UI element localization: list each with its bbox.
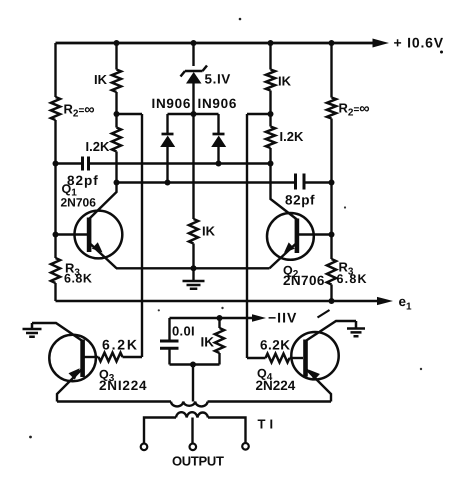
resistor R2 left: [51, 97, 60, 120]
node junction dot 10: [268, 161, 274, 167]
svg-text:R2=∞: R2=∞: [64, 101, 95, 119]
node junction dot 14: [53, 232, 59, 238]
wire secondary right arm: [208, 418, 246, 444]
node junction dot 18: [217, 315, 223, 321]
node junction dot 3: [268, 40, 274, 46]
wire -11V feed: [170, 314, 267, 322]
svg-text:82pf: 82pf: [67, 173, 99, 188]
node junction dot 1: [114, 40, 120, 46]
transformer T1 primary winding: [171, 402, 208, 407]
node 0.01 label: [172, 324, 195, 339]
node junction dot 6: [191, 111, 197, 117]
node junction dot 19: [190, 362, 196, 368]
wire right vertical (R3 to e1 wire): [330, 285, 332, 302]
node output terminal right: [242, 443, 249, 450]
wire 6.2K right to Q4 base: [290, 357, 304, 359]
node R3 right label: [337, 260, 368, 287]
node junction dot 11: [114, 180, 120, 186]
svg-text:IN906: IN906: [198, 96, 238, 111]
node 5.1V label: [205, 72, 231, 87]
wire W1 right segment to Q2 collector node: [90, 162, 271, 164]
node speck 5: [420, 368, 422, 370]
resistor 6.2K right: [266, 354, 290, 363]
svg-text:R2=∞: R2=∞: [339, 101, 370, 119]
wire secondary center tap: [191, 418, 193, 444]
node speck 3: [344, 206, 346, 208]
resistor 1K left: [112, 70, 121, 93]
node junction dot 12: [165, 180, 171, 186]
svg-text:2N224: 2N224: [256, 378, 296, 393]
node R3 left label: [64, 261, 92, 286]
wire left dropper vertical: [141, 114, 143, 357]
wire left vertical (R2 to base junction): [54, 120, 56, 235]
node junction dot 2: [191, 40, 197, 46]
svg-text:IK: IK: [278, 74, 292, 89]
wire 1K middle bottom to emitter wire: [192, 244, 194, 269]
node R2 left label: [64, 101, 95, 119]
ground Q3 collector: [23, 323, 42, 337]
wire emitter bus Q1-Q2: [116, 267, 270, 269]
wire W2 left segment from Q1 collector node: [117, 181, 295, 183]
wire stray mark: [318, 310, 330, 318]
node 1.2K left label: [86, 139, 110, 154]
svg-text:2N706: 2N706: [283, 273, 325, 288]
wire right vertical (R2 to base junction): [330, 119, 332, 260]
node junction dot 9: [216, 161, 222, 167]
node junction dot 17: [329, 298, 335, 304]
wire left vertical (base to R3): [54, 235, 56, 259]
svg-text:IK: IK: [202, 224, 216, 239]
node junction dot 5: [114, 111, 120, 117]
node speck 7: [158, 309, 160, 311]
diode 1N906 left: [160, 114, 175, 183]
svg-text:6.2K: 6.2K: [102, 337, 139, 353]
wire W1 left segment: [56, 162, 82, 164]
node e1 label: [399, 294, 413, 313]
node 1K right label: [278, 74, 292, 89]
wire left vertical (rail to R2): [54, 43, 56, 97]
svg-text:I.2K: I.2K: [86, 139, 110, 154]
svg-text:IK: IK: [201, 335, 215, 350]
svg-text:IN906: IN906: [152, 96, 192, 111]
wire right dropper to 6.2K: [247, 357, 266, 359]
svg-text:2NI224: 2NI224: [99, 378, 147, 393]
node 82pf left label: [67, 173, 99, 188]
node junction dot 15: [329, 232, 335, 238]
wire e1 output: [56, 297, 394, 305]
diode 1N906 right: [211, 114, 226, 164]
svg-text:TI: TI: [258, 417, 278, 432]
svg-text:5.IV: 5.IV: [205, 72, 231, 87]
capacitor 0.01: [160, 318, 179, 365]
node 1K left label: [94, 72, 108, 87]
node output terminal left: [141, 444, 148, 451]
node speck 2: [29, 436, 32, 439]
resistor 1K tank: [215, 318, 224, 365]
node Q1 label: [61, 182, 97, 209]
svg-text:+ I0.6V: + I0.6V: [394, 35, 444, 51]
transistor Q2: [267, 164, 332, 269]
wire zener to clamp bar: [192, 84, 194, 115]
resistor 1K middle: [189, 219, 198, 244]
ground Q4 collector: [347, 321, 365, 336]
svg-text:6.2K: 6.2K: [260, 338, 291, 353]
node junction dot 8: [53, 161, 59, 167]
wire ground stem middle: [192, 268, 194, 281]
wire 1.2K left bottom lead: [115, 152, 117, 183]
svg-text:e1: e1: [399, 294, 413, 313]
svg-text:2N706: 2N706: [61, 195, 97, 209]
wire left vertical (R3 to e1 wire): [54, 283, 56, 301]
node 1.2K right label: [280, 129, 304, 144]
wire center tap to primary: [192, 365, 194, 402]
resistor R2 right: [327, 98, 336, 119]
wire 1K left top lead: [115, 43, 117, 70]
zener diode 5.1V: [181, 66, 208, 84]
node speck 1: [239, 18, 242, 21]
node +10.6V label: [394, 35, 444, 54]
node 82pf right label: [285, 193, 315, 208]
node 1K middle label: [202, 224, 216, 239]
node Q4 label: [256, 367, 296, 394]
svg-text:6.8K: 6.8K: [337, 272, 368, 286]
svg-text:I.2K: I.2K: [280, 129, 304, 144]
ground middle: [183, 281, 205, 289]
node output terminal center: [190, 444, 197, 451]
svg-text:6.8K: 6.8K: [64, 272, 92, 286]
wire 1.2K right bottom lead: [269, 148, 271, 164]
node 6.2K left label: [102, 337, 139, 353]
wire left dropper to 6.2K: [123, 356, 143, 358]
node Q2 label: [283, 263, 325, 288]
wire zener top lead: [192, 43, 194, 66]
node -11V label: [268, 310, 297, 326]
node R2 right label: [339, 101, 370, 119]
resistor 6.2K left: [99, 353, 123, 362]
transformer T1 secondary winding: [176, 412, 208, 417]
wire primary left (Q3 emitter to winding): [57, 400, 171, 402]
wire 1K right bottom to node A2: [269, 91, 271, 127]
resistor 1.2K right: [266, 127, 275, 149]
capacitor 82pf left: [83, 157, 89, 171]
wire W2 right segment: [306, 181, 332, 183]
node OUTPUT label: [172, 454, 224, 469]
svg-text:OUTPUT: OUTPUT: [172, 454, 224, 469]
node junction dot 4: [329, 40, 335, 46]
transistor Q4: [291, 321, 356, 402]
resistor 1K right: [266, 70, 275, 91]
node 6.2K right label: [260, 338, 291, 353]
wire tank bottom: [170, 363, 220, 365]
resistor 1.2K left: [112, 128, 121, 152]
wire +10.6V supply rail: [56, 39, 390, 48]
node 1K tank label: [201, 335, 215, 350]
node 1N906 right label: [198, 96, 238, 111]
transistor Q3: [32, 323, 96, 402]
node junction dot 13: [329, 180, 335, 186]
resistor R3 left: [51, 258, 60, 283]
node speck 6: [221, 307, 223, 309]
wire node A2 to right dropper: [247, 113, 271, 115]
wire primary right (winding to Q4 emitter): [208, 400, 332, 402]
node T1 label: [258, 417, 278, 432]
wire 1K left bottom lead to node A: [115, 92, 117, 128]
wire node A to left dropper: [117, 113, 143, 115]
svg-text:0.0I: 0.0I: [172, 324, 195, 339]
wire 1K right top lead: [269, 43, 271, 70]
wire right dropper vertical: [246, 114, 248, 358]
node junction dot 16: [191, 265, 197, 271]
wire center vertical (bar to 1K middle): [192, 114, 194, 219]
wire clamp bar between diodes: [168, 113, 219, 115]
svg-text:IK: IK: [94, 72, 108, 87]
svg-text:−IIV: −IIV: [268, 310, 297, 326]
node junction dot 7: [268, 111, 274, 117]
transistor Q1: [56, 183, 123, 269]
svg-text:82pf: 82pf: [285, 193, 315, 208]
node 1N906 left label: [152, 96, 192, 111]
wire 6.2K left to Q3 base: [84, 356, 99, 358]
wire right vertical (rail to R2 right): [330, 43, 332, 98]
wire secondary left arm: [144, 418, 176, 444]
node Q3 label: [99, 368, 147, 394]
resistor R3 right: [327, 259, 336, 285]
capacitor 82pf right: [296, 174, 305, 190]
